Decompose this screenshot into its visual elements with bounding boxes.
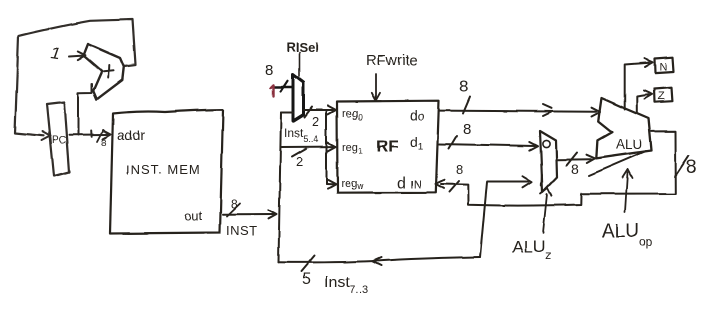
instruction memory INST. MEM [110,110,223,234]
wire d0 to ALU input A [439,105,600,117]
wire Inst5..4 into reg1 [281,142,336,151]
register file RF [337,101,439,193]
svg-text:8: 8 [686,157,697,178]
wire INST vertical bus [279,113,282,263]
wire RISel select line [299,53,301,77]
bus slash 8 on INST [227,204,240,217]
wire INST output [223,210,277,219]
svg-text:PC: PC [52,135,66,146]
wire Inst bus into RISel mux input [281,112,293,114]
wire d1 to operand mux input 0 [439,142,538,151]
bus slash 5 with label Inst7..3 [301,256,315,272]
flag register N [655,57,674,72]
flag register Z [655,87,673,102]
wire PC feedback loop from adder output around to PC input [15,20,136,141]
bus slash 8 on ALU result [675,156,689,177]
register PC [47,102,69,176]
svg-text:do: do [410,107,425,123]
svg-text:INST. MEM: INST. MEM [126,162,201,177]
wire into regw [327,180,337,189]
svg-text:2: 2 [296,154,303,169]
bus slash 8 on PC output [97,130,103,142]
svg-text:out: out [184,208,202,223]
svg-text:8: 8 [571,161,579,177]
bus slash 2 on reg1 input [292,149,306,157]
svg-text:5: 5 [302,271,311,288]
wire constant-1 into adder [69,52,85,60]
wire ALU result feedback to d_in [436,131,676,205]
wire RISel mux output to reg0 [304,106,337,115]
adder (+1 incrementer) [84,44,124,99]
bus slash 8 on d1 [449,136,457,149]
wire PC output to addr [69,130,111,139]
svg-text:8: 8 [459,77,468,96]
wire Inst7..3 riser to operand mux input 1 [480,176,532,257]
svg-text:RISel: RISel [286,40,319,55]
svg-text:2: 2 [312,114,319,129]
constant 1 label (red) [271,85,274,97]
svg-text:INST: INST [226,223,258,238]
svg-text:RF: RF [376,137,399,156]
bus slash on constant input [281,81,288,92]
svg-text:N: N [659,61,667,73]
mux ALUz (operand select mux) [540,131,557,192]
wire ALU to N flag [625,59,653,110]
svg-text:8: 8 [456,162,463,177]
mux RISel (register select mux) [293,75,304,122]
wire reg-select vertical to regw [326,110,328,184]
svg-text:8: 8 [265,62,273,79]
bus slash 2 on mux output [305,107,313,117]
svg-text:RFwrite: RFwrite [366,52,418,69]
svg-text:8: 8 [231,197,238,211]
op-amp style ALU block [596,98,651,158]
svg-text:addr: addr [117,127,145,143]
wire PC output up into adder input [78,84,92,135]
svg-text:8: 8 [463,121,471,138]
bus slash 8 on mux output [567,153,578,166]
svg-text:Z: Z [658,90,665,102]
wire ALU to Z flag [637,91,653,113]
wire Inst7..3 bottom run [279,257,481,266]
wire constant 1 input to RISel mux [274,86,293,89]
wire operand mux output to ALU input B [557,155,595,163]
bus slash 8 near d_in [450,181,460,192]
bus slash 8 on d0 [463,97,470,114]
svg-text:8: 8 [101,138,106,148]
svg-text:ALU: ALU [616,137,642,152]
